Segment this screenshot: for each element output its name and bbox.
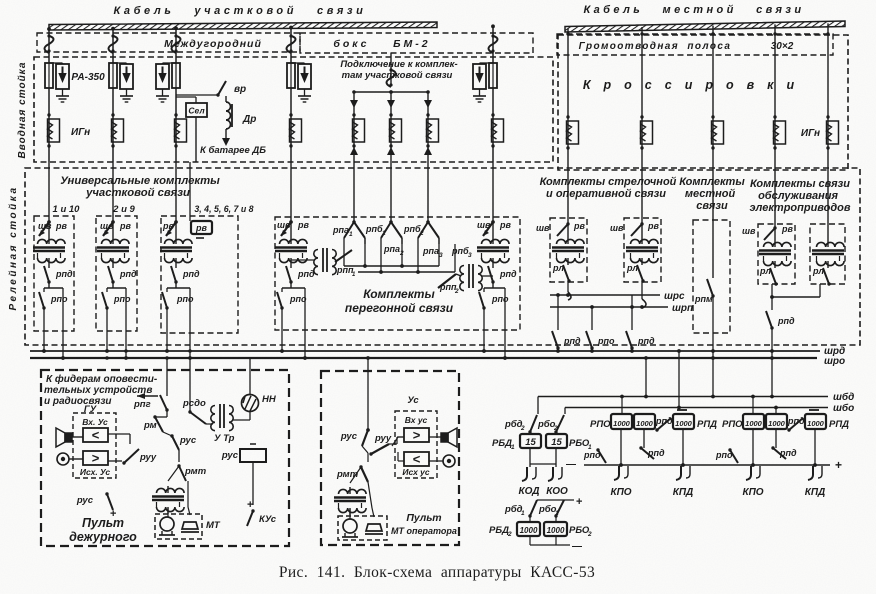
group RBD2/RBO2 [530,500,537,516]
contact rl eprivod 2 [823,268,829,284]
arrester coil IGn 4 [290,119,302,142]
contact rpd mid group 590 [641,448,654,459]
wire below fuse 3 [175,88,177,162]
feeders to shbd/shbo [645,358,647,397]
box mestnaya svyaz [693,220,730,333]
transformer UTr [206,423,213,425]
wire to battery DB [225,129,227,140]
wire middle column x=391 [390,92,392,162]
discharger RA-350 #3 [156,64,169,89]
contact rpd x=176 [175,265,177,268]
cable bus 2 (hatched bar) [565,21,845,32]
transformer x=493 [492,222,494,237]
wire local column x=828 [827,23,829,170]
transformer eprivod 1 [764,242,792,247]
hook entry 4 [287,36,296,53]
amp box in [83,428,108,442]
wire local column x=713 [712,26,714,170]
contact rm [155,417,163,432]
vertical feeds from shbd to groups [621,397,623,415]
transformer eprivod 2 [816,242,844,247]
wires down group 722 [752,429,754,465]
wire to discharger 3 [163,62,177,64]
wire fuse column 2 [112,52,114,63]
peregon contact cluster [353,162,355,222]
scan noise [0,0,1,1]
branch rpo x=113 [107,287,126,289]
wire into unit x=49 [48,162,50,222]
khooks group 590 [614,466,619,480]
exit wires unit x=49 [43,308,45,351]
wires down group 590 [620,429,622,465]
coil IGn local x=828 [827,121,839,144]
wires amp to contacts [108,433,130,435]
box krossirovki [558,35,848,170]
amp box MT in [404,428,429,442]
contact rl x=568 [563,265,569,281]
box GU [73,413,116,478]
contact rpd mid group 722 [773,448,786,459]
bus shbd [538,396,828,398]
wire middle column x=428 [427,92,429,162]
contact ruu MT [371,444,389,454]
bus junction dots [42,349,46,353]
wires into pult from relay rack [166,358,168,396]
arrow rpg [137,395,158,397]
wire entry column x=49 [48,29,50,52]
khooks group 722 [746,466,751,480]
exit wires unit x=291 [281,308,283,351]
wire into unit x=291 [290,162,292,222]
wire local column x=642 [641,27,643,170]
wire fuse column 4 [290,52,292,63]
hook entry 1 [45,36,54,53]
wire strel x=568 [567,170,569,237]
transformer MT operatora [339,489,367,494]
wire into unit x=113 [112,162,114,222]
contact rpd x=49 [48,265,50,268]
hook entry 2 [109,36,118,53]
wire into pult MT [367,358,369,430]
wire lamp to utr [249,412,251,420]
box strelochny unit x=568 [550,218,587,282]
relay RV box [189,162,191,221]
wire to discharger 1 [49,62,63,64]
wire to discharger 5 [480,62,494,64]
box Mezhdugorodniy [37,33,300,52]
arrester coil IGn 2 [112,119,124,142]
wire middle column x=354 [353,92,355,162]
bus shbo [565,407,828,409]
switch vr [176,94,218,96]
selector box Sel [176,96,196,98]
contact shv x=493 [483,222,493,236]
fuse Pr3 [172,63,180,88]
box universal unit 2 [96,216,137,331]
wire fuse column 1 [48,52,50,63]
contact rpd x=493 [492,265,494,268]
wire below fuse 5 [492,88,494,162]
wire into unit x=493 [492,162,494,222]
transformer rpp1 [291,259,315,261]
contact rl eprivod 1 [770,268,776,284]
box elektroprivod unit 2 [810,224,845,284]
bus shrs [567,281,569,292]
coil IGn local x=568 [567,121,579,144]
box Us [395,411,437,478]
contact rpg [160,395,167,410]
cable bus 1 (hatched bar) [49,22,437,30]
transformer MT pult [168,465,179,467]
box pult MT operatora [321,371,459,545]
wire entry column x=291 [290,28,292,52]
mic MT operatora [366,524,382,531]
contact shv x=291 [281,222,291,236]
peregon rails [343,244,345,266]
fuse Pr2 [109,63,117,88]
branch rpo x=493 [484,287,505,289]
hook entry 3 [172,36,181,53]
wire drop to middle header [390,53,392,85]
coil IGn local x=642 [641,121,653,144]
transformer x=176 [175,222,177,237]
wire to discharger 4 [291,62,305,64]
contact ruu left [124,449,139,463]
header wire middle group [354,91,428,93]
arrester coil IGn 3 [175,119,187,142]
discharger RA-350 #4 [298,64,311,89]
wire local column x=568 [567,28,569,170]
wire entry column x=493 [492,26,494,52]
exit wires unit x=176 [166,308,168,351]
wire fuse column 3 [175,52,177,63]
wire to discharger 2 [113,62,127,64]
plus rail [584,464,830,466]
fuse Pr1 [45,63,53,88]
wire below fuse 1 [48,88,50,162]
fuse Pr4 [287,63,295,88]
contact rus mid [163,432,172,436]
join wires eprivod [771,284,773,297]
coil IGn middle x=354 [353,119,365,142]
box universal unit 3 [161,216,238,333]
contact rmt MT [367,453,369,462]
discharger RA-350 #5 [473,64,486,89]
coil IGn local x=713 [712,121,724,144]
earpiece MT [160,517,174,531]
box elektroprivod unit 1 [758,224,795,284]
wire rm link [160,416,190,418]
wire mestnaya [712,170,714,278]
wire fuse column 5 [492,52,494,63]
branch rpo x=291 [282,287,305,289]
branch rpo x=49 [44,287,63,289]
exit wires unit x=493 [483,308,485,351]
mic MT operator [443,455,455,467]
contact rpd upper group 722 [789,418,803,430]
box pult dezhurnogo [41,370,289,546]
earpiece MT operatora [343,519,357,533]
transformer rpp2 [438,274,456,288]
discharger RA-350 #2 [120,64,133,89]
wire entry column x=113 [112,29,114,52]
box Gromootvodnaya polosa 30x2 [557,34,833,55]
box strelochny unit x=642 [624,218,661,282]
group RBD1/RBO1 [537,397,539,415]
box komplekty peregonnoy svyazi [275,217,520,330]
box universal unit 1 [34,216,74,331]
box boks BM-2 [300,33,533,53]
box releynaya stoika [25,168,860,345]
wire below fuse 4 [290,88,292,162]
hook entry 5 [489,36,498,53]
branch rpo x=176 [167,287,190,289]
coil IGn local x=775 [774,121,786,144]
wire into unit x=176 [175,162,177,222]
amp box MT out [404,452,429,466]
discharger RA-350 #1 [56,64,69,89]
bus shrd [30,350,820,352]
contact shv x=176 [166,222,176,236]
wire strel x=642 [641,170,643,237]
contacts rpd rpo rpd under shrs [557,295,559,330]
wire eprivod 1 [774,170,776,240]
fuse Pr5 [489,63,497,88]
transformer x=291 [290,222,292,237]
contact rpd x=113 [112,265,114,268]
contact rpd upper group 590 [657,418,671,430]
amp box out [83,451,108,465]
contact shv x=113 [103,222,113,236]
wire below fuse 2 [112,88,114,162]
wire local column x=775 [774,24,776,170]
contact rl x=642 [637,265,643,281]
exit wires unit x=113 [106,308,108,351]
coil IGn middle x=391 [390,119,402,142]
contact rpd x=291 [290,265,292,268]
contact rmt [178,450,180,462]
transformer x=113 [112,222,114,237]
contact rpm [707,279,713,296]
lamp NN [242,395,259,412]
bus shro [30,357,817,359]
speaker GU [65,433,72,442]
bus shrp [641,281,643,299]
speaker MT [441,433,448,442]
coil IGn middle x=428 [427,119,439,142]
contact rpd eprivod [771,297,773,310]
box vvodnaya stoika [34,57,553,162]
contact shv x=49 [39,222,49,236]
transformer x=49 [48,222,50,237]
arrester coil IGn 5 [492,119,504,142]
wire eprivod 2 [827,170,829,240]
inductor Dr [225,96,227,102]
mic MT [182,522,198,529]
wire rus box down + KUs [252,462,254,505]
box MT [155,514,202,539]
box MT operatora [338,516,387,540]
arrester coil IGn 1 [48,119,60,142]
wire entry column x=176 [175,28,177,52]
microphone GU [57,453,69,465]
